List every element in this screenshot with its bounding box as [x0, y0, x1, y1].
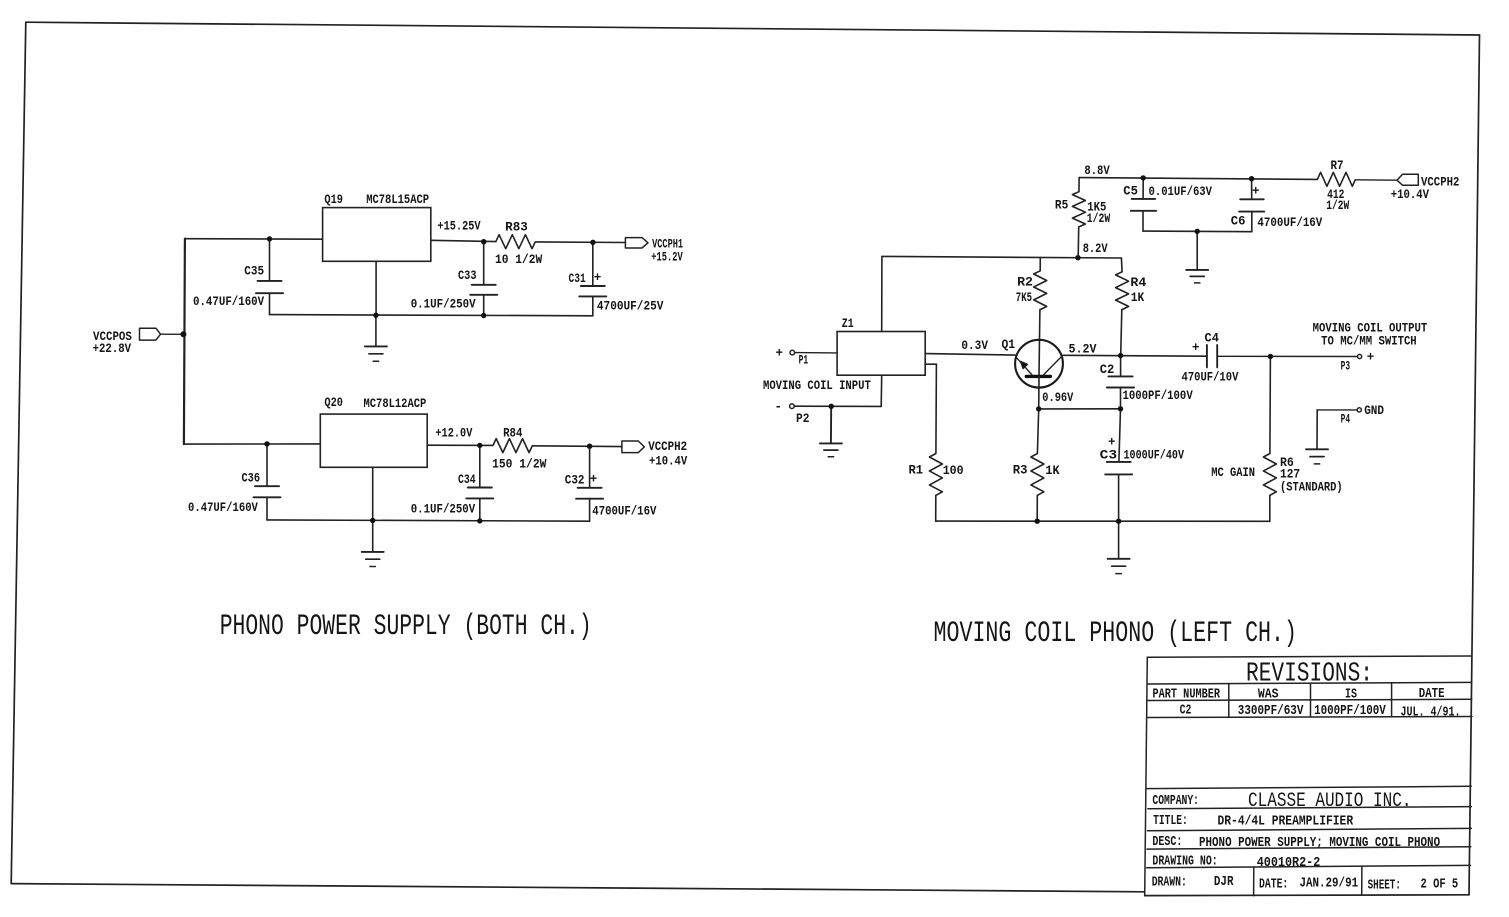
- svg-text:GND: GND: [1364, 404, 1384, 418]
- svg-text:JUL. 4/91.: JUL. 4/91.: [1401, 704, 1461, 720]
- svg-text:5.2V: 5.2V: [1069, 342, 1097, 356]
- svg-text:C3: C3: [1100, 449, 1118, 463]
- svg-text:1/2W: 1/2W: [1326, 199, 1349, 213]
- svg-text:C4: C4: [1205, 332, 1220, 346]
- svg-text:SHEET:: SHEET:: [1368, 878, 1401, 894]
- svg-text:IS: IS: [1345, 687, 1357, 703]
- svg-text:150 1/2W: 150 1/2W: [492, 458, 547, 472]
- svg-text:MOVING COIL INPUT: MOVING COIL INPUT: [763, 379, 871, 393]
- svg-text:R3: R3: [1013, 463, 1028, 477]
- svg-text:1000PF/100V: 1000PF/100V: [1123, 389, 1194, 403]
- svg-text:C31: C31: [569, 272, 586, 286]
- svg-text:MC78L15ACP: MC78L15ACP: [366, 193, 429, 207]
- svg-text:Z1: Z1: [842, 317, 854, 331]
- svg-text:C33: C33: [458, 269, 477, 283]
- svg-text:MOVING COIL PHONO (LEFT CH.): MOVING COIL PHONO (LEFT CH.): [934, 617, 1298, 651]
- svg-text:PHONO POWER SUPPLY (BOTH CH.): PHONO POWER SUPPLY (BOTH CH.): [220, 610, 592, 644]
- svg-text:+: +: [1367, 351, 1375, 365]
- svg-text:(STANDARD): (STANDARD): [1280, 480, 1343, 494]
- svg-text:Q19: Q19: [324, 193, 343, 207]
- svg-text:R1: R1: [909, 463, 924, 477]
- svg-text:P4: P4: [1341, 413, 1351, 427]
- svg-text:MOVING COIL OUTPUT: MOVING COIL OUTPUT: [1313, 321, 1428, 335]
- svg-text:+12.0V: +12.0V: [435, 427, 472, 441]
- svg-text:4700UF/16V: 4700UF/16V: [592, 505, 657, 519]
- svg-text:470UF/10V: 470UF/10V: [1182, 371, 1239, 385]
- svg-text:0.1UF/250V: 0.1UF/250V: [411, 503, 476, 517]
- svg-text:4700UF/25V: 4700UF/25V: [597, 300, 664, 314]
- svg-text:+: +: [594, 271, 602, 285]
- svg-text:+: +: [590, 473, 598, 487]
- svg-text:1/2W: 1/2W: [1087, 212, 1111, 226]
- svg-text:C5: C5: [1123, 185, 1138, 199]
- svg-text:100: 100: [943, 464, 964, 478]
- svg-text:C36: C36: [242, 472, 261, 486]
- svg-text:0.3V: 0.3V: [961, 339, 988, 353]
- svg-text:DRAWING NO:: DRAWING NO:: [1152, 854, 1217, 870]
- svg-text:4700UF/16V: 4700UF/16V: [1257, 216, 1322, 230]
- svg-text:CLASSE AUDIO INC.: CLASSE AUDIO INC.: [1248, 790, 1412, 813]
- svg-text:0.1UF/250V: 0.1UF/250V: [411, 298, 476, 312]
- svg-text:Q20: Q20: [324, 396, 343, 410]
- svg-text:C2: C2: [1100, 363, 1115, 377]
- svg-text:0.47UF/160V: 0.47UF/160V: [188, 501, 258, 515]
- svg-text:DATE:: DATE:: [1259, 877, 1288, 893]
- svg-text:R2: R2: [1017, 276, 1033, 290]
- svg-text:MC78L12ACP: MC78L12ACP: [364, 397, 427, 411]
- svg-text:+: +: [776, 346, 784, 360]
- svg-text:+: +: [1192, 341, 1200, 355]
- svg-text:REVISIONS:: REVISIONS:: [1246, 659, 1373, 689]
- svg-text:-: -: [775, 400, 783, 414]
- svg-text:DR-4/4L PREAMPLIFIER: DR-4/4L PREAMPLIFIER: [1218, 814, 1354, 830]
- svg-text:P1: P1: [799, 354, 809, 368]
- svg-text:+10.4V: +10.4V: [1391, 188, 1430, 202]
- svg-text:R83: R83: [505, 220, 528, 234]
- svg-text:DATE: DATE: [1419, 686, 1445, 702]
- svg-text:0.01UF/63V: 0.01UF/63V: [1149, 185, 1213, 199]
- svg-text:R4: R4: [1130, 276, 1146, 290]
- svg-text:+22.8V: +22.8V: [93, 341, 132, 356]
- svg-text:1000PF/100V: 1000PF/100V: [1314, 703, 1386, 719]
- svg-text:TO MC/MM SWITCH: TO MC/MM SWITCH: [1321, 334, 1417, 348]
- svg-text:40010R2-2: 40010R2-2: [1257, 855, 1321, 871]
- svg-text:3300PF/63V: 3300PF/63V: [1238, 703, 1304, 719]
- svg-text:+15.25V: +15.25V: [437, 220, 481, 234]
- svg-text:1K: 1K: [1045, 464, 1060, 478]
- svg-text:P2: P2: [796, 412, 810, 426]
- svg-text:C6: C6: [1231, 215, 1246, 229]
- svg-text:VCCPH1: VCCPH1: [652, 238, 683, 252]
- svg-text:DESC:: DESC:: [1152, 834, 1182, 850]
- svg-text:DRAWN:: DRAWN:: [1152, 875, 1187, 891]
- svg-text:8.8V: 8.8V: [1084, 164, 1110, 178]
- svg-text:10 1/2W: 10 1/2W: [495, 253, 543, 267]
- svg-text:8.2V: 8.2V: [1083, 242, 1108, 256]
- svg-text:2 OF 5: 2 OF 5: [1421, 877, 1459, 893]
- svg-text:R84: R84: [503, 427, 523, 441]
- svg-text:C2: C2: [1180, 703, 1192, 719]
- svg-text:C32: C32: [565, 474, 585, 488]
- svg-text:C35: C35: [244, 264, 264, 278]
- svg-text:127: 127: [1280, 467, 1300, 481]
- svg-text:Q1: Q1: [1002, 338, 1016, 352]
- svg-text:1K: 1K: [1131, 291, 1145, 305]
- svg-text:P3: P3: [1341, 359, 1351, 373]
- svg-text:JAN.29/91: JAN.29/91: [1300, 875, 1359, 891]
- svg-text:1000UF/40V: 1000UF/40V: [1124, 449, 1185, 463]
- svg-text:DJR: DJR: [1214, 874, 1234, 890]
- svg-text:+15.2V: +15.2V: [651, 251, 683, 265]
- svg-text:+10.4V: +10.4V: [649, 454, 688, 468]
- svg-text:VCCPH2: VCCPH2: [648, 440, 687, 454]
- svg-text:0.96V: 0.96V: [1042, 391, 1073, 405]
- svg-text:+: +: [1108, 436, 1116, 450]
- svg-text:R5: R5: [1055, 198, 1068, 212]
- svg-text:C34: C34: [458, 473, 476, 487]
- svg-text:7K5: 7K5: [1016, 291, 1032, 305]
- svg-text:TITLE:: TITLE:: [1153, 813, 1188, 829]
- svg-text:WAS: WAS: [1258, 686, 1279, 702]
- svg-text:MC GAIN: MC GAIN: [1211, 466, 1255, 480]
- svg-text:PART NUMBER: PART NUMBER: [1153, 687, 1221, 703]
- svg-text:0.47UF/160V: 0.47UF/160V: [193, 295, 265, 309]
- svg-text:R7: R7: [1331, 159, 1344, 173]
- svg-text:COMPANY:: COMPANY:: [1152, 793, 1199, 809]
- svg-text:+: +: [1252, 185, 1260, 199]
- svg-text:PHONO POWER SUPPLY; MOVING COI: PHONO POWER SUPPLY; MOVING COIL PHONO: [1199, 835, 1440, 851]
